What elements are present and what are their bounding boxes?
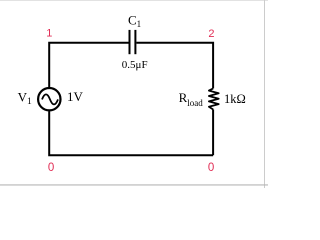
voltage source V1 (AC) — [38, 88, 60, 110]
wire bottom segment — [49, 111, 213, 155]
page border lines — [0, 0, 268, 1]
wire top-left segment (node1 to C1) — [49, 43, 128, 87]
wire top-right segment (C1 to node2) — [136, 43, 213, 89]
svg-text:0: 0 — [48, 162, 54, 174]
capacitor C1 — [130, 30, 136, 54]
svg-text:0.5μF: 0.5μF — [122, 59, 148, 71]
svg-text:1kΩ: 1kΩ — [224, 92, 246, 106]
svg-text:1V: 1V — [67, 89, 84, 104]
svg-text:2: 2 — [208, 28, 214, 40]
resistor Rload — [209, 88, 219, 109]
svg-text:1: 1 — [46, 28, 52, 40]
wire right-bottom segment (Rload to bottom) — [212, 110, 214, 156]
svg-text:0: 0 — [208, 162, 214, 174]
